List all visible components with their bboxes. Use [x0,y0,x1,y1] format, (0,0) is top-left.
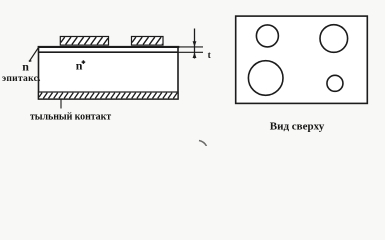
label back contact [30,111,111,122]
thickness dimension vertical line with arrows [193,29,197,59]
label epitaks. [2,73,41,84]
label t (epi thickness) [208,51,212,61]
wafer body n+ substrate rectangle [38,47,180,99]
label n- (epitaxial layer) [22,60,31,74]
svg-text:Вид сверху: Вид сверху [270,120,325,132]
leader line from n- label to epitaxial layer corner [29,47,38,61]
epitaxial layer bottom boundary line [39,51,179,53]
back contact hatched strip [39,92,179,99]
label n+ inside substrate [76,59,85,73]
bottom-left circle [248,61,283,96]
svg-text:n: n [22,60,29,74]
top-left circle [256,25,278,47]
svg-text:n: n [76,59,83,73]
thickness dimension extension tick top [179,46,204,48]
label top view caption [270,120,325,132]
top view rectangle [236,16,368,103]
bottom-right small circle [327,75,343,91]
top contact pad 2 (hatched) [132,37,164,46]
leader line from back contact to its label [60,99,62,109]
partial figure letter mark at bottom [199,141,207,147]
svg-text:тыльный контакт: тыльный контакт [30,111,111,122]
svg-text:эпитакс.: эпитакс. [2,73,41,84]
top contact pad 1 (hatched) [60,37,108,46]
thickness dimension extension tick bottom [179,51,204,53]
top-right circle [320,25,348,53]
